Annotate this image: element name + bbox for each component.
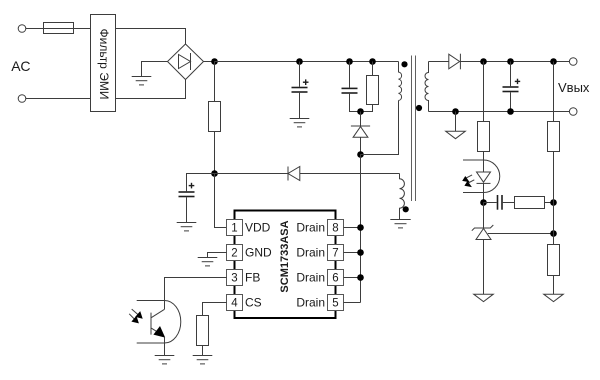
pin 6 Drain (296, 270, 343, 286)
pin 7 Drain (296, 245, 343, 261)
wire output rail (460, 61, 569, 63)
capacitor C5 comp (484, 195, 515, 210)
wire (116, 80, 186, 99)
light arrows into Q1 (129, 309, 143, 323)
diode D3 output rectifier (449, 54, 461, 70)
pin 8 Drain (296, 220, 343, 236)
node divider mid upper (550, 199, 557, 206)
IC U1 SCM1733ASA body (235, 211, 336, 319)
EMI filter box (91, 15, 116, 112)
wire (26, 98, 91, 100)
node R4 top (480, 58, 487, 65)
svg-text:5: 5 (332, 298, 338, 310)
wire (142, 62, 168, 77)
capacitor C1 bulk electrolytic (292, 58, 309, 118)
wire GND pin (208, 253, 227, 258)
node bridge output (211, 58, 218, 65)
wire drain bus (360, 155, 362, 303)
svg-text:Drain: Drain (296, 296, 325, 310)
svg-text:SCM1733ASA: SCM1733ASA (279, 220, 291, 292)
AC input terminal top (18, 25, 26, 33)
node R5 top (550, 58, 557, 65)
wire drain to primary (361, 101, 399, 155)
optocoupler phototransistor package (137, 301, 181, 344)
ground (C1) (290, 119, 310, 127)
node VDD supply (211, 170, 218, 177)
wire (116, 29, 186, 45)
svg-text:VDD: VDD (245, 221, 271, 235)
svg-text:2: 2 (231, 248, 237, 260)
wire (215, 174, 227, 228)
ground (GND pin) (198, 258, 218, 266)
resistor R3 current sense (197, 316, 209, 356)
chassis ground (VR1) (474, 294, 494, 301)
node pin 6 (357, 274, 364, 281)
pin 1 VDD (227, 220, 271, 236)
pin 2 GND (227, 245, 273, 261)
svg-text:8: 8 (332, 223, 338, 235)
wire (204, 61, 215, 63)
node snubber (357, 108, 364, 115)
ground (Q1 emitter) (155, 356, 175, 364)
capacitor C4 output electrolytic (503, 58, 521, 115)
transformer T1 auxiliary winding (400, 174, 405, 220)
wire pin 8 (344, 227, 361, 229)
transformer T1 primary winding (399, 62, 402, 101)
resistor R5 divider upper (548, 62, 560, 245)
svg-text:Vвых: Vвых (558, 80, 590, 95)
bridge rectifier BR1 (168, 44, 204, 80)
wire CS pin (203, 303, 227, 316)
node secondary return (452, 108, 459, 115)
phase dot primary (401, 61, 407, 67)
node divider mid (550, 230, 557, 237)
wire pin 5 (344, 302, 361, 304)
node LED cathode (480, 199, 487, 206)
diode D1 clamp (351, 112, 370, 155)
wire pin 6 (344, 277, 361, 279)
LED D4 opto (477, 160, 491, 203)
fuse F1 (44, 23, 74, 34)
svg-text:6: 6 (332, 273, 338, 285)
pin 3 FB (227, 270, 261, 286)
output terminal plus (569, 58, 577, 66)
wire bottom rail (429, 111, 570, 113)
svg-text:Drain: Drain (296, 246, 325, 260)
svg-text:3: 3 (231, 273, 237, 285)
diode D2 VDD rectifier (215, 167, 400, 181)
chassis ground (secondary) (446, 112, 466, 139)
ground (R3) (193, 356, 213, 364)
phase dot secondary (416, 105, 422, 111)
ground (C3) (177, 223, 197, 231)
wire secondary top (429, 61, 449, 63)
svg-text:CS: CS (245, 296, 262, 310)
transformer core (412, 56, 416, 202)
output terminal minus (569, 108, 577, 116)
optocoupler LED package (463, 160, 500, 193)
ground (auxiliary winding) (390, 220, 410, 228)
resistor R1 startup (209, 62, 221, 174)
wire FB pin (165, 278, 227, 310)
svg-text:FB: FB (245, 271, 260, 285)
phase dot auxiliary (403, 206, 409, 212)
resistor R4 LED feed (478, 62, 490, 161)
node pin 8 (357, 224, 364, 231)
wire (26, 28, 91, 30)
svg-text:1: 1 (231, 223, 237, 235)
transistor Q1 opto (151, 309, 165, 355)
AC input terminal bottom (18, 95, 26, 103)
svg-text:Фильтр ЭМИ: Фильтр ЭМИ (97, 29, 111, 100)
resistor R7 divider lower (548, 245, 560, 295)
node drain (357, 151, 364, 158)
svg-text:7: 7 (332, 248, 338, 260)
resistor R6 comp (515, 197, 554, 209)
pin 5 Drain (296, 295, 343, 311)
chassis ground (R7) (544, 294, 564, 301)
ground (bridge) (132, 77, 152, 85)
capacitor C2 snubber (342, 58, 361, 111)
pin 4 CS (227, 295, 262, 311)
node pin 7 (357, 249, 364, 256)
wire reference (488, 233, 554, 235)
wire pin 7 (344, 252, 361, 254)
svg-text:4: 4 (231, 298, 238, 310)
resistor R2 snubber (361, 58, 379, 111)
capacitor C3 VDD electrolytic (179, 174, 215, 223)
zener VR1 shunt regulator (472, 203, 494, 295)
svg-text:Drain: Drain (296, 221, 325, 235)
light arrows from LED (462, 175, 474, 187)
wire HV rail (215, 61, 399, 63)
transformer T1 secondary winding (425, 62, 429, 112)
svg-text:Drain: Drain (296, 271, 325, 285)
svg-text:АС: АС (11, 58, 30, 74)
svg-text:GND: GND (245, 246, 272, 260)
